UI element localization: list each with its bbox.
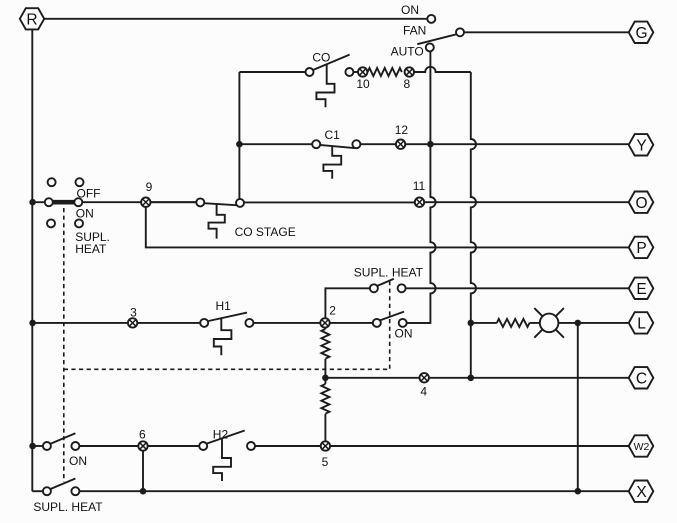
- svg-text:L: L: [637, 316, 646, 333]
- wire W2 row mid: [79, 445, 199, 447]
- contact mode OFF right: [76, 178, 84, 186]
- junction dot L row left: [29, 320, 36, 327]
- contact H1 right: [245, 319, 253, 327]
- switch H2 blade: [207, 431, 245, 444]
- resistor R lower: [321, 384, 329, 414]
- wire X row left stub: [32, 490, 43, 492]
- terminal X: [629, 481, 654, 502]
- svg-text:H1: H1: [216, 299, 232, 313]
- junction dot C row bus2: [468, 375, 475, 382]
- wire L to X vertical: [577, 323, 579, 491]
- terminal C: [629, 367, 654, 388]
- contact ON L right: [399, 319, 407, 327]
- terminal Y: [629, 134, 654, 155]
- wire P row from node 9: [146, 207, 629, 248]
- junction dot mode row: [29, 199, 36, 206]
- switch SUPL HEAT (X row) blade: [51, 479, 76, 489]
- wire W2 row left stub: [32, 445, 43, 447]
- wire lamp to L terminal: [530, 322, 629, 324]
- wire E row right: [406, 287, 629, 289]
- wire E branch from node 2: [325, 288, 370, 323]
- dashed linkage vertical left: [63, 208, 65, 482]
- svg-text:AUTO: AUTO: [391, 44, 424, 58]
- svg-text:E: E: [636, 281, 646, 298]
- svg-text:4: 4: [420, 385, 427, 399]
- contact H2 right: [247, 442, 255, 450]
- contact SUPL HEAT E right: [398, 284, 406, 292]
- svg-text:8: 8: [403, 77, 410, 91]
- wire O row left: [151, 201, 197, 203]
- svg-text:CO STAGE: CO STAGE: [235, 225, 296, 239]
- contact H2 left: [199, 442, 207, 450]
- contact CO left: [306, 68, 314, 76]
- junction dot W2 row left: [29, 443, 36, 450]
- wire vertical bus from AUTO contact with hops: [407, 51, 436, 323]
- contact C1 left: [312, 140, 320, 148]
- wire vertical bus 2 with hops: [471, 72, 476, 378]
- wire CO contact link: [353, 71, 358, 73]
- contact CO right: [345, 68, 353, 76]
- svg-text:ON: ON: [395, 326, 413, 340]
- wire Y row mid: [360, 143, 396, 145]
- contact ON W2 right: [71, 442, 79, 450]
- wire O row right: [424, 201, 629, 203]
- svg-text:9: 9: [146, 180, 153, 194]
- svg-text:C1: C1: [325, 128, 341, 142]
- dashed linkage vertical right: [389, 281, 391, 369]
- switch C1 blade: [320, 145, 355, 148]
- mode switch closed bar: [53, 200, 75, 205]
- svg-text:11: 11: [413, 179, 426, 193]
- heater element of C1 switch: [323, 146, 341, 179]
- svg-text:SUPL. HEAT: SUPL. HEAT: [33, 500, 103, 514]
- contact mode OFF left: [48, 178, 56, 186]
- test point 10: [358, 67, 367, 76]
- contact CO STAGE right: [236, 199, 244, 207]
- wire Y row left: [239, 143, 312, 145]
- wire node 6 drop: [142, 446, 144, 491]
- lamp bulb: [540, 314, 559, 333]
- svg-text:12: 12: [395, 123, 409, 137]
- terminal G: [629, 22, 654, 43]
- wire fan switch blade: [417, 34, 456, 44]
- svg-text:R: R: [26, 11, 37, 28]
- heater element of H1 switch: [214, 318, 232, 355]
- test point 11: [415, 198, 424, 207]
- svg-text:G: G: [635, 25, 647, 42]
- contact H1 left: [200, 319, 208, 327]
- svg-text:ON: ON: [76, 207, 94, 221]
- contact FAN common: [456, 28, 464, 36]
- wire resistor to node 5: [324, 414, 326, 446]
- test point 2: [320, 318, 329, 327]
- contact AUTO: [426, 43, 434, 51]
- terminal R: [20, 8, 44, 29]
- switch CO STAGE blade: [204, 203, 237, 205]
- wire X row right: [79, 490, 628, 492]
- wire L row right: [471, 322, 497, 324]
- svg-text:X: X: [636, 484, 647, 501]
- contact SUPL HEAT E left: [370, 284, 378, 292]
- wire left R bus: [31, 29, 33, 491]
- dashed linkage horizontal: [64, 368, 390, 370]
- svg-text:SUPL. HEAT: SUPL. HEAT: [354, 265, 424, 279]
- contact mode SUPL left: [47, 219, 55, 227]
- svg-text:2: 2: [329, 304, 336, 318]
- svg-text:O: O: [635, 195, 647, 212]
- junction dot L row bus2: [468, 320, 475, 327]
- terminal P: [629, 237, 654, 258]
- junction dot X row right: [575, 488, 582, 495]
- svg-text:Y: Y: [636, 137, 646, 154]
- svg-text:C: C: [636, 370, 647, 387]
- switch CO blade: [312, 55, 349, 71]
- junction dot Y row bus1: [427, 141, 434, 148]
- svg-text:ON: ON: [401, 3, 419, 17]
- terminal L: [629, 312, 654, 333]
- wire L row to bus corner: [407, 322, 431, 324]
- switch ON (W2 row) blade: [51, 433, 76, 443]
- wire C row: [325, 377, 628, 379]
- heater element of H2 switch: [213, 439, 231, 481]
- wire L row mid: [253, 322, 372, 324]
- switch ON (L row) blade: [380, 312, 404, 321]
- svg-text:ON: ON: [69, 454, 87, 468]
- svg-text:10: 10: [356, 77, 370, 91]
- wire vertical bus 3: [238, 72, 240, 199]
- contact mode SUPL right: [75, 219, 83, 227]
- svg-text:6: 6: [139, 428, 146, 442]
- wire CO row right with hop over bus: [414, 67, 471, 72]
- wire R row: [44, 18, 427, 20]
- svg-text:W2: W2: [634, 441, 650, 453]
- contact mode ON left: [45, 198, 53, 206]
- wire node2 resistor chain: [324, 323, 326, 329]
- resistor lamp series: [497, 319, 530, 327]
- contact CO STAGE left: [196, 198, 204, 206]
- wire G row: [464, 31, 629, 33]
- contact SUPL HEAT X left: [43, 487, 51, 495]
- svg-text:FAN: FAN: [403, 23, 426, 37]
- lamp rays: [534, 308, 564, 338]
- contact SUPL HEAT X right: [71, 487, 79, 495]
- test point 6: [138, 441, 147, 450]
- test point 8: [405, 67, 414, 76]
- switch SUPL HEAT (E row) blade: [378, 279, 394, 286]
- junction dot X row node6: [140, 488, 147, 495]
- test point 3: [128, 318, 137, 327]
- svg-text:CO: CO: [312, 51, 330, 65]
- terminal O: [629, 192, 654, 213]
- contact C1 right: [352, 140, 360, 148]
- junction dot C row resistor: [322, 375, 329, 382]
- switch H1 blade: [209, 313, 248, 321]
- svg-text:3: 3: [130, 305, 137, 319]
- junction dot Y row bus3: [236, 141, 243, 148]
- test point 12: [396, 140, 405, 149]
- terminal E: [629, 278, 654, 299]
- resistor R upper: [321, 329, 329, 359]
- heater element of CO switch: [316, 65, 334, 108]
- wire O row mid: [244, 201, 415, 203]
- contact ON W2 left: [43, 442, 51, 450]
- wire L row left: [32, 322, 200, 324]
- wire between resistors: [324, 359, 326, 384]
- junction dot L row lamp out: [575, 320, 582, 327]
- contact ON (fan): [427, 15, 435, 23]
- svg-text:P: P: [636, 240, 646, 257]
- test point 5: [321, 441, 330, 450]
- test point 4: [420, 373, 429, 382]
- resistor heat anticipator top: [368, 68, 402, 76]
- svg-text:H2: H2: [213, 428, 229, 442]
- terminal W2: [629, 435, 654, 456]
- contact ON L left: [373, 319, 381, 327]
- wire CO row left: [239, 71, 305, 73]
- wire W2 row right: [255, 445, 629, 447]
- wire mode switch row: [32, 201, 196, 203]
- wire Y row right: [405, 143, 628, 145]
- svg-text:OFF: OFF: [77, 186, 101, 200]
- svg-text:HEAT: HEAT: [75, 242, 107, 256]
- heater element of CO STAGE switch: [209, 204, 225, 239]
- contact mode ON right: [74, 198, 82, 206]
- svg-text:5: 5: [322, 455, 329, 469]
- test point 9: [141, 198, 150, 207]
